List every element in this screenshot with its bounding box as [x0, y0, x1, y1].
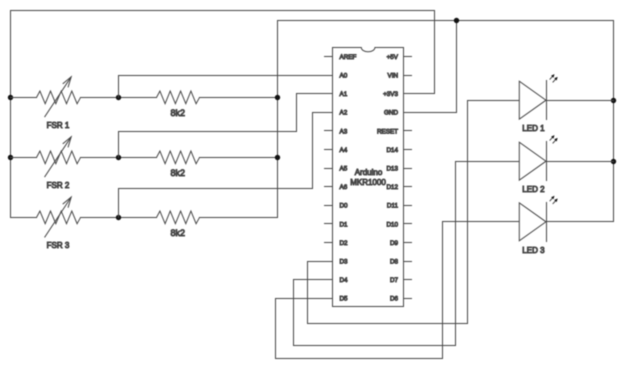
svg-text:D9: D9: [390, 240, 399, 247]
resistor 8k2 #3: [157, 211, 200, 224]
pin A3 stub: [325, 130, 333, 132]
wire FSR1 junction to A0: [119, 76, 325, 98]
pin A5 stub: [325, 168, 333, 170]
FSR R2 "FSR 2" variable resistor: [37, 151, 81, 164]
LED1 light arrows: [550, 77, 552, 80]
svg-text:D2: D2: [340, 240, 349, 247]
svg-text:D5: D5: [340, 296, 349, 303]
svg-text:AREF: AREF: [340, 54, 357, 61]
node FSR2/divider junction: [116, 155, 121, 160]
wire FSR3 junction to A2: [119, 113, 325, 218]
pin D0 stub: [325, 205, 333, 207]
pin D5 stub: [325, 298, 333, 300]
node FSR2 left junction: [8, 155, 13, 160]
LED2 light arrows: [550, 138, 552, 141]
pin +5V stub: [404, 56, 412, 58]
svg-text:D1: D1: [340, 221, 349, 228]
svg-text:D8: D8: [390, 259, 399, 266]
wire FSR2 to resistor: [81, 157, 157, 159]
svg-text:FSR 1: FSR 1: [47, 121, 70, 130]
wire ground bus vertical: [278, 21, 614, 218]
wire GND pin to ground rail: [404, 21, 457, 113]
svg-text:D11: D11: [387, 203, 399, 210]
pin A6 stub: [325, 186, 333, 188]
svg-text:A3: A3: [340, 128, 348, 135]
svg-text:D12: D12: [386, 184, 398, 191]
LED1 cathode bar: [546, 81, 548, 120]
wire 8k2 #1 to ground bus: [200, 97, 278, 99]
pin A4 stub: [325, 149, 333, 151]
IC U1 Arduino MKR1000 module body: [333, 48, 404, 307]
svg-text:FSR 3: FSR 3: [47, 241, 70, 250]
svg-text:D3: D3: [340, 259, 349, 266]
LED D3 "LED 3": [519, 203, 546, 241]
svg-text:A6: A6: [340, 184, 348, 191]
svg-text:Arduino: Arduino: [355, 168, 383, 177]
wire FSR1 to resistor: [81, 97, 157, 99]
svg-text:+3V3: +3V3: [383, 91, 398, 98]
wire FSR3 to resistor: [81, 217, 157, 219]
node FSR1/divider junction: [116, 95, 121, 100]
svg-text:RESET: RESET: [377, 128, 398, 135]
svg-text:A5: A5: [340, 166, 348, 173]
wire FSR1 left lead: [11, 97, 37, 99]
FSR R3 "FSR 3" variable resistor: [37, 211, 81, 224]
svg-text:A4: A4: [340, 147, 348, 154]
node 8k2 #1 / ground bus: [275, 95, 280, 100]
node FSR1 left junction: [8, 95, 13, 100]
wire 8k2 #2 to ground bus: [200, 157, 278, 159]
wire D5 to LED3 anode: [276, 222, 520, 359]
svg-text:D7: D7: [390, 277, 399, 284]
svg-text:8k2: 8k2: [170, 168, 185, 178]
pin D7 stub: [404, 279, 412, 281]
wire LED2 cathode to bus: [547, 161, 614, 163]
wire LED cathode bus: [613, 21, 615, 222]
wire +3V3 top rail: [11, 11, 435, 98]
svg-text:D0: D0: [340, 203, 349, 210]
pin D6 stub: [404, 298, 412, 300]
LED D1 "LED 1": [519, 81, 546, 119]
svg-text:D10: D10: [386, 221, 398, 228]
pin D2 stub: [325, 242, 333, 244]
wire +3V3 pin lead: [404, 93, 435, 95]
pin D14 stub: [404, 149, 412, 151]
node 8k2 #2 / ground bus: [275, 155, 280, 160]
wire 8k2 #3 to ground bus: [200, 217, 278, 219]
svg-text:MKR1000: MKR1000: [350, 178, 386, 187]
pin A0 stub: [325, 75, 333, 77]
wire left supply bus: [11, 98, 37, 218]
wire D3 to LED1 anode: [308, 101, 520, 324]
svg-text:LED 1: LED 1: [522, 124, 545, 133]
wire LED3 cathode to bus: [547, 221, 614, 223]
svg-text:LED 3: LED 3: [522, 246, 545, 255]
pin A1 stub: [325, 93, 333, 95]
svg-text:VIN: VIN: [388, 73, 399, 80]
wire FSR2 left lead: [11, 157, 37, 159]
pin GND stub: [404, 112, 412, 114]
pin D9 stub: [404, 242, 412, 244]
svg-text:D14: D14: [386, 147, 398, 154]
pin A2 stub: [325, 112, 333, 114]
pin D1 stub: [325, 223, 333, 225]
pin D10 stub: [404, 223, 412, 225]
pin RESET stub: [404, 130, 412, 132]
pin D12 stub: [404, 186, 412, 188]
wire FSR2 junction to A1: [119, 94, 325, 158]
svg-text:+5V: +5V: [387, 54, 399, 61]
resistor 8k2 #2: [157, 151, 200, 164]
svg-text:D4: D4: [340, 277, 349, 284]
svg-text:D6: D6: [390, 296, 399, 303]
pin D3 stub: [325, 261, 333, 263]
pin +3V3 stub: [404, 93, 412, 95]
svg-text:D13: D13: [386, 166, 398, 173]
FSR3 wiper arrow: [45, 197, 71, 237]
node ground tee: [454, 18, 459, 23]
LED2 cathode bar: [546, 142, 548, 181]
svg-text:8k2: 8k2: [170, 108, 185, 118]
svg-text:8k2: 8k2: [170, 228, 185, 238]
svg-text:LED 2: LED 2: [522, 185, 545, 194]
pin VIN stub: [404, 75, 412, 77]
svg-text:GND: GND: [384, 110, 398, 117]
FSR1 wiper arrow: [45, 77, 71, 117]
pin AREF stub: [325, 56, 333, 58]
pin D13 stub: [404, 168, 412, 170]
FSR R1 "FSR 1" variable resistor: [37, 91, 81, 104]
wire LED1 cathode to bus: [547, 100, 614, 102]
node LED2 cathode / bus: [611, 159, 616, 164]
resistor 8k2 #1: [157, 91, 200, 104]
FSR2 wiper arrow: [45, 137, 71, 177]
pin D8 stub: [404, 261, 412, 263]
svg-text:A1: A1: [340, 91, 348, 98]
node LED1 cathode / bus: [611, 98, 616, 103]
LED3 cathode bar: [546, 203, 548, 242]
pin D11 stub: [404, 205, 412, 207]
LED D2 "LED 2": [519, 142, 546, 180]
node FSR3/divider junction: [116, 215, 121, 220]
wire FSR3 left lead: [11, 217, 37, 219]
LED3 light arrows: [550, 198, 552, 201]
svg-text:A0: A0: [340, 73, 348, 80]
svg-text:A2: A2: [340, 110, 348, 117]
wire D4 to LED2 anode: [294, 162, 520, 346]
pin D4 stub: [325, 279, 333, 281]
svg-text:FSR 2: FSR 2: [47, 181, 70, 190]
